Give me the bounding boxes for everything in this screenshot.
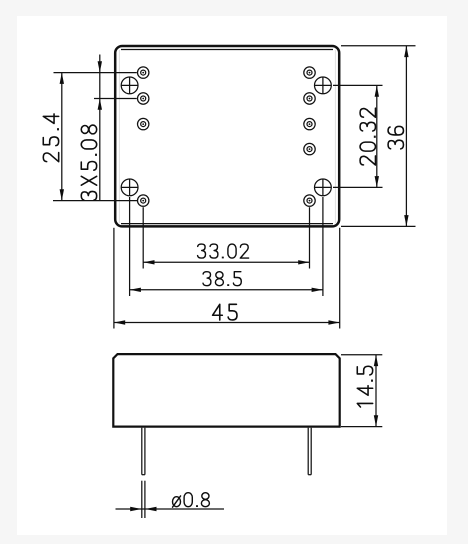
dimension 3X5.08 line: [98, 55, 102, 201]
dimension text 14.5 (vertical): [357, 366, 373, 407]
top view: package body outline: [115, 46, 339, 226]
mounting pin M4 (right bottom, crosshair): [315, 179, 332, 196]
extension line pin4 row: [53, 200, 137, 202]
dimension text 33.02: [198, 244, 249, 258]
extension line below M2 column: [129, 197, 131, 296]
extension line top edge (right, for 36): [341, 45, 416, 47]
side view: right lead: [308, 428, 311, 475]
dimension 25.4 line: [60, 73, 64, 201]
dimension text 25.4 (vertical): [43, 114, 59, 162]
extension line M1 row (right): [333, 84, 383, 86]
dimension text 38.5: [203, 272, 241, 286]
pin 7 (right column, row 3): [304, 118, 315, 129]
dimension 20.32 line: [375, 85, 379, 187]
pin 5 (right column, row 1): [304, 67, 315, 78]
extension line below left box edge: [113, 228, 115, 329]
dimension 14.5 line: [374, 355, 378, 427]
side view: package body: [113, 354, 339, 427]
pin 1 (left column, row 1): [138, 67, 149, 78]
dimension text Ø0.8: [173, 493, 210, 508]
dimension 45 line: [114, 320, 340, 324]
extension line below pin4 column: [142, 207, 144, 268]
extension line below right box edge: [339, 228, 341, 329]
dimension text 3X5.08 (vertical): [81, 125, 97, 200]
dimension 33.02 line: [143, 260, 309, 264]
top view: faint inner line left: [118, 50, 120, 223]
top view: lid seam line (bottom): [121, 223, 333, 225]
dimension text 36 (vertical): [388, 126, 403, 149]
side view: left lead (upper segment): [142, 428, 145, 475]
extension line below pin9 column: [309, 207, 311, 268]
dimension Ø0.8 line: [116, 507, 225, 511]
mounting pin M2 (left bottom, crosshair): [121, 179, 138, 196]
extension line side-view bottom edge: [341, 426, 382, 428]
extension line side-view top edge: [341, 354, 382, 356]
dimension text 45: [213, 304, 237, 320]
side view: left lead (lower segment, past break): [142, 481, 145, 518]
mounting pin M3 (right top, crosshair): [315, 77, 332, 94]
extension line bottom edge (right, for 36): [341, 225, 416, 227]
pin 3 (left column, row 3): [138, 118, 149, 129]
pin 2 (left column, row 2): [138, 93, 149, 104]
extension line pin2 row: [94, 98, 137, 100]
dimension 36 line: [404, 46, 408, 227]
pin 6 (right column, row 2): [304, 93, 315, 104]
extension line pin1 row: [54, 72, 137, 74]
pin 8 (right column, row 4): [304, 143, 315, 154]
extension line M2 row (right): [333, 186, 383, 188]
pin 4 (left column, bottom): [138, 195, 149, 206]
extension line below M4 column: [322, 197, 324, 296]
mounting pin M1 (left top, crosshair): [121, 77, 138, 94]
pin 9 (right column, bottom): [304, 195, 315, 206]
top view: lid seam line (top): [121, 49, 333, 51]
top view: faint inner line right: [334, 50, 336, 223]
dimension text 20.32 (vertical): [360, 108, 376, 165]
dimension 38.5 line: [130, 288, 323, 292]
